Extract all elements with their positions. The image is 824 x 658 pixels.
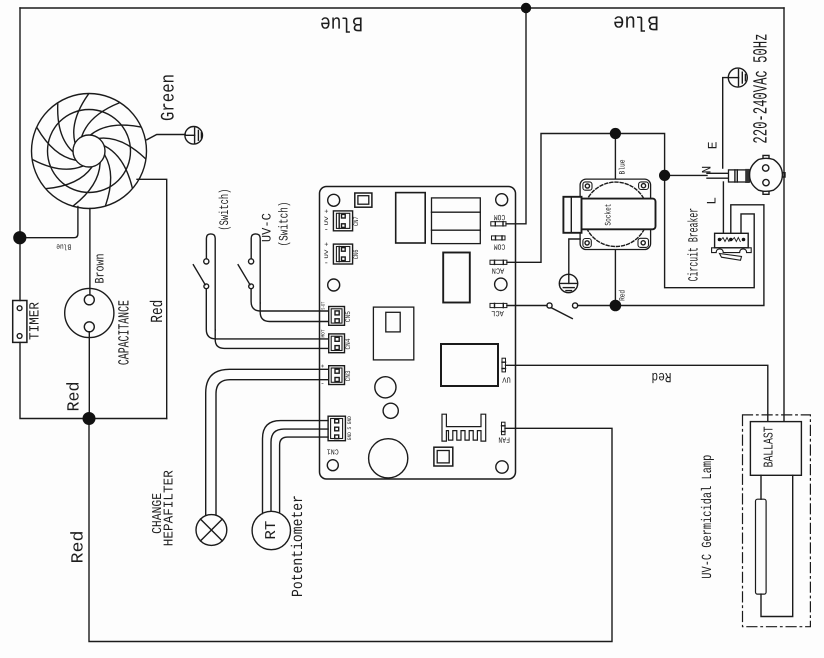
connector CN5 <box>329 307 345 326</box>
socket slot band <box>569 199 656 230</box>
PCB mounting hole mid-left <box>328 279 340 291</box>
connector CN7 <box>333 211 352 231</box>
wire blue top net <box>20 7 784 9</box>
socket XS plate <box>580 179 651 249</box>
wire RT lead 1 to CN1 <box>263 421 329 514</box>
svg-text:HEPAFILTER: HEPAFILTER <box>162 470 177 546</box>
fan blower hub circle <box>73 135 105 167</box>
wire lamp left lead to CN3 pin1 <box>206 369 328 515</box>
circuit breaker CB1 <box>712 233 752 260</box>
svg-text:+: + <box>324 242 328 250</box>
svg-text:COM: COM <box>494 241 506 250</box>
pad FAN <box>502 422 506 435</box>
svg-text:GND S GND: GND S GND <box>346 416 353 441</box>
svg-text:Red: Red <box>149 300 168 323</box>
plug P1 body connector <box>729 169 750 183</box>
svg-text:Circuit Breaker: Circuit Breaker <box>686 208 702 282</box>
svg-text:CN3: CN3 <box>345 370 353 381</box>
socket circle dashed <box>584 182 648 246</box>
timer T1 <box>13 301 27 343</box>
svg-text:-: - <box>324 226 329 235</box>
connector CN4 <box>329 334 345 353</box>
svg-text:BALLAST: BALLAST <box>763 426 778 467</box>
svg-text:CN4: CN4 <box>345 339 353 350</box>
ground earth symbol socket <box>559 274 577 292</box>
PCB bottom square pad <box>434 447 453 466</box>
plug P1 face <box>750 155 786 194</box>
wire SW2 hook lead to CN5 pin2 <box>260 303 328 322</box>
svg-text:MOT: MOT <box>321 330 327 338</box>
fan blower middle circle <box>48 110 131 193</box>
wire SW1 bottom terminal to CN4 pin1 <box>206 289 328 339</box>
svg-text:Green: Green <box>158 74 180 121</box>
socket corner pad top-right <box>639 182 649 190</box>
svg-text:L: L <box>704 197 719 205</box>
wire SW1 hook lead to CN4 pin2 <box>215 330 328 348</box>
wire switch SW3 to socket bottom and breaker <box>578 205 764 306</box>
wire blue right border down to ballast <box>783 8 785 422</box>
wire SW2 bottom terminal to CN5 pin1 <box>251 289 328 311</box>
connector CN1 <box>328 416 345 441</box>
svg-text:CAPACITANCE: CAPACITANCE <box>115 300 133 365</box>
UV-C lamp tube <box>756 499 767 594</box>
PCB hole near ACL <box>495 278 507 290</box>
fan blades <box>33 94 145 206</box>
wire RT lead 3 to CN1 <box>280 437 328 513</box>
transformer T2 center block <box>373 307 413 360</box>
PCB mounting hole top-left <box>328 194 340 206</box>
junction dot left border <box>13 231 26 244</box>
motor M fan blower outer circle <box>32 94 147 209</box>
capacitor CE circle B <box>383 403 398 418</box>
svg-text:-: - <box>320 381 324 389</box>
PCB mounting hole bottom-left <box>327 460 338 471</box>
wire fan brown to capacitor <box>89 209 91 296</box>
svg-text:Brown: Brown <box>92 254 107 284</box>
svg-text:UV: UV <box>323 249 330 259</box>
svg-text:UV-C: UV-C <box>259 213 274 242</box>
junction dot plug N <box>659 170 670 181</box>
wire junction A down and bottom run to fan pad <box>89 419 612 642</box>
capacitor CX tall rectangle <box>443 253 470 303</box>
svg-text:220-240VAc 50Hz: 220-240VAc 50Hz <box>751 34 774 144</box>
svg-text:ACN: ACN <box>492 266 505 275</box>
wire capacitor bottom to junction A <box>88 332 90 419</box>
svg-text:COM: COM <box>494 212 506 221</box>
wire RT lead 2 to CN1 <box>271 429 328 511</box>
svg-text:CN1: CN1 <box>326 447 338 456</box>
pad ACL <box>490 303 507 307</box>
wire plug E from earth symbol <box>723 78 729 168</box>
pad COM1 <box>491 222 506 226</box>
svg-text:+: + <box>321 363 325 370</box>
svg-text:Socket: Socket <box>604 204 614 226</box>
svg-text:E: E <box>705 141 720 149</box>
svg-text:Red: Red <box>66 382 85 412</box>
pad COM2 <box>492 236 506 240</box>
switch SW1 (Switch) <box>193 234 215 330</box>
wire left border down to timer <box>19 8 21 301</box>
connector CN3 <box>329 366 345 385</box>
wire fan blue to left junction <box>26 207 78 238</box>
junction dot top blue <box>521 3 531 13</box>
wire ACL pad to switch SW3 <box>507 305 547 307</box>
lamp HL change hepafilter indicator <box>196 515 227 546</box>
svg-text:-: - <box>324 259 329 268</box>
junction dot socket bottom <box>610 300 622 312</box>
svg-text:Blue: Blue <box>618 159 627 174</box>
svg-text:UV-C Germicidal Lamp: UV-C Germicidal Lamp <box>700 455 716 579</box>
wire timer bottom to junction A <box>20 342 167 418</box>
capacitor CE circle A <box>375 377 396 398</box>
ground earth symbol (Green) <box>185 127 203 145</box>
wire lamp tube bottom loop to ballast right <box>761 475 793 616</box>
wire plug L down to breaker <box>722 182 724 233</box>
svg-text:N: N <box>700 166 715 174</box>
switch SW3 on ACL line <box>547 303 578 319</box>
socket corner pad bottom-left <box>583 239 591 248</box>
UV lamp assembly dash-dot enclosure <box>743 415 811 627</box>
buzzer BZ big circle <box>369 439 408 478</box>
PCB top-left square pad <box>355 193 372 207</box>
wire ballast left bottom to lamp tube <box>760 475 762 499</box>
svg-text:UV: UV <box>323 215 330 225</box>
junction dot socket top <box>610 128 621 139</box>
socket band left cap <box>563 197 581 233</box>
PCB mounting hole top-right <box>496 194 508 206</box>
heatsink <box>442 414 486 441</box>
junction dot A <box>83 412 96 425</box>
svg-text:Red: Red <box>70 531 89 564</box>
socket corner pad top-left <box>583 182 592 190</box>
pad UV <box>502 358 506 372</box>
PCB mounting hole bottom-right <box>496 461 508 473</box>
wire ACN pad to socket top and plug N <box>507 134 754 288</box>
wire N junction to plug <box>665 174 707 176</box>
capacitor C1 (motor capacitor) <box>65 288 114 337</box>
pad ACN <box>490 260 507 264</box>
svg-text:UV: UV <box>502 375 511 384</box>
wire UV pad to ballast (Red) <box>506 365 768 421</box>
svg-text:ACL: ACL <box>491 308 504 317</box>
socket corner pad bottom-right <box>638 238 649 247</box>
svg-text:CN5: CN5 <box>345 311 353 322</box>
wire socket top stub <box>614 134 616 179</box>
transformer T vertical rectangle top <box>396 193 426 243</box>
potentiometer RT <box>252 511 290 549</box>
wire lamp right lead to CN3 pin2 <box>216 380 328 515</box>
svg-text:Blue: Blue <box>56 241 71 250</box>
svg-text:Red: Red <box>652 368 672 384</box>
svg-text:(Switch): (Switch) <box>217 189 232 231</box>
svg-text:Blue: Blue <box>613 9 659 32</box>
svg-text:(Switch): (Switch) <box>277 202 292 247</box>
wire fan green to earth <box>147 135 185 140</box>
svg-text:+: + <box>324 208 328 216</box>
svg-text:CN6: CN6 <box>353 250 361 260</box>
ground earth symbol plug E <box>728 68 747 87</box>
svg-text:CN7: CN7 <box>353 216 361 226</box>
svg-text:Red: Red <box>619 290 628 301</box>
socket band cap divider <box>570 197 572 233</box>
connector CN6 <box>333 244 352 264</box>
svg-text:Potentiometer: Potentiometer <box>289 495 307 597</box>
svg-text:RT: RT <box>263 521 280 540</box>
wire red vertical fan to junction A <box>137 179 167 418</box>
svg-text:TIMER: TIMER <box>28 301 44 340</box>
wire COM pad up to top blue net <box>506 8 526 224</box>
svg-text:FAN: FAN <box>498 435 510 444</box>
wire socket earth <box>569 239 580 274</box>
relay K1 three-bar stack <box>432 198 481 244</box>
wire socket bottom stub <box>614 250 616 306</box>
svg-text:Blue: Blue <box>320 10 363 33</box>
switch SW2 UV-C (Switch) <box>238 234 260 303</box>
ballast box <box>750 422 801 476</box>
PCB U1 control board outline <box>320 187 516 480</box>
relay K2 power relay <box>441 344 498 386</box>
svg-text:S-DT: S-DT <box>321 302 327 310</box>
